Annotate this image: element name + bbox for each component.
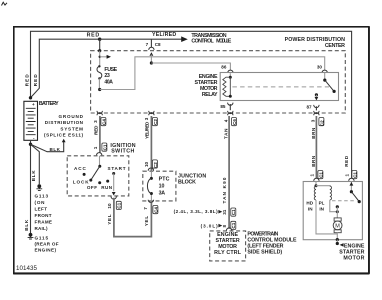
relay terminal 85 <box>220 103 233 111</box>
svg-text:C1: C1 <box>318 172 323 178</box>
svg-text:87: 87 <box>306 105 312 110</box>
wire RED battery positive inner <box>31 39 100 98</box>
svg-text:FUSE: FUSE <box>104 67 117 73</box>
svg-text:G115: G115 <box>35 235 49 240</box>
junction block box <box>143 168 207 202</box>
fused output arrow <box>100 55 111 59</box>
svg-text:LOCK: LOCK <box>73 179 90 184</box>
svg-text:FRAME: FRAME <box>35 220 53 225</box>
svg-text:YEL/RED: YEL/RED <box>145 121 150 139</box>
wire BLK to splice ES11 <box>31 139 66 152</box>
svg-text:C2: C2 <box>319 120 324 126</box>
svg-text:RED: RED <box>24 74 29 87</box>
svg-text:PTC: PTC <box>159 177 170 183</box>
wire TAN K90 relay 85 to PCM <box>222 116 237 229</box>
node RED bus junction <box>98 38 101 41</box>
fuse 23 40A <box>97 65 118 85</box>
battery <box>24 101 59 140</box>
relay terminal 87 <box>306 105 319 111</box>
svg-text:RED: RED <box>87 32 100 38</box>
svg-text:ACC: ACC <box>74 166 86 171</box>
PDC exit connector symbols <box>97 111 319 115</box>
relay mechanical link <box>232 86 329 88</box>
svg-text:HD: HD <box>306 201 313 206</box>
PCM engine starter motor relay control box <box>210 228 246 261</box>
engine variant callout 3.0L <box>201 221 237 229</box>
svg-text:RUN: RUN <box>101 185 113 190</box>
transmission control module label <box>191 33 231 45</box>
svg-text:LEFT: LEFT <box>35 207 48 212</box>
wire YEL ignition to junction block <box>107 198 159 237</box>
svg-text:C4: C4 <box>101 119 106 125</box>
svg-text:C2: C2 <box>153 162 158 168</box>
svg-text:RELAY: RELAY <box>202 92 218 98</box>
PTC 10 3A <box>147 171 169 201</box>
svg-text:7: 7 <box>143 207 148 210</box>
relay contact arm <box>323 73 336 93</box>
svg-text:3A: 3A <box>159 191 166 197</box>
ignition switch box <box>67 143 136 196</box>
svg-text:IN: IN <box>308 206 313 211</box>
svg-text:C1: C1 <box>231 222 236 228</box>
svg-text:10: 10 <box>107 203 112 209</box>
svg-text:(SPLICE ES11): (SPLICE ES11) <box>44 132 83 137</box>
svg-text:8: 8 <box>222 225 227 228</box>
svg-text:YEL/RED: YEL/RED <box>152 32 176 38</box>
relay terminal 30 <box>317 64 328 73</box>
svg-text:BLOCK: BLOCK <box>178 179 196 185</box>
svg-text:TAN: TAN <box>224 128 229 139</box>
svg-text:C2: C2 <box>153 119 158 125</box>
svg-text:BRN: BRN <box>311 155 316 167</box>
relay fixed contact 87 <box>315 93 319 100</box>
svg-text:(REAR OF: (REAR OF <box>35 242 59 247</box>
svg-text:MODULE: MODULE <box>216 39 232 45</box>
svg-text:86: 86 <box>221 64 227 69</box>
svg-text:CONTROL: CONTROL <box>191 39 214 45</box>
svg-text:40A: 40A <box>104 80 113 86</box>
svg-text:23: 23 <box>104 73 109 79</box>
svg-text:TAN K90: TAN K90 <box>222 177 227 203</box>
svg-text:C6: C6 <box>232 119 237 125</box>
svg-text:1: 1 <box>309 174 314 177</box>
relay coil <box>223 73 232 98</box>
svg-text:3: 3 <box>144 117 149 120</box>
svg-text:C1: C1 <box>231 209 236 215</box>
svg-text:MOTOR: MOTOR <box>343 256 364 262</box>
ground G113 <box>35 184 53 231</box>
svg-text:SIDE SHIELD): SIDE SHIELD) <box>247 250 282 256</box>
wire RED battery to starter labels <box>344 155 357 181</box>
svg-text:4: 4 <box>223 119 228 122</box>
starter solenoid contact <box>332 182 361 218</box>
svg-text:FRONT: FRONT <box>35 213 52 218</box>
svg-text:C8: C8 <box>155 42 161 47</box>
svg-text:BLK: BLK <box>31 170 36 182</box>
svg-text:C1: C1 <box>352 172 357 178</box>
svg-text:(ON: (ON <box>35 200 46 205</box>
svg-text:3: 3 <box>310 119 315 122</box>
powertrain control module label <box>247 232 297 256</box>
svg-text:BRN: BRN <box>311 127 316 139</box>
ignition switch contacts <box>73 156 126 190</box>
ignition switch START output <box>111 174 116 200</box>
svg-text:OFF: OFF <box>87 185 97 190</box>
junction battery positive <box>29 96 32 99</box>
connector C8 <box>146 39 161 50</box>
svg-text:ENGINE): ENGINE) <box>35 248 57 253</box>
svg-text:10: 10 <box>144 161 149 167</box>
svg-text:1: 1 <box>93 146 98 149</box>
svg-text:RED: RED <box>344 155 349 167</box>
svg-text:C1: C1 <box>102 144 107 150</box>
ground G115 <box>28 233 59 253</box>
svg-text:RAIL): RAIL) <box>35 226 48 231</box>
svg-text:30: 30 <box>317 64 323 69</box>
svg-text:RLY CTRL: RLY CTRL <box>214 250 242 256</box>
wire BLK to G113 <box>31 144 40 184</box>
wire fused feed into PDC <box>98 39 101 65</box>
wire YEL/RED trunk PDC to junction block <box>144 116 158 171</box>
svg-text:YEL: YEL <box>144 216 149 227</box>
svg-text:RED: RED <box>93 125 98 135</box>
wire PDC internal C8 to relay coil 86 <box>150 52 231 70</box>
svg-text:(2.4L, 3.3L, 3.8L): (2.4L, 3.3L, 3.8L) <box>174 209 218 214</box>
wire PDC internal fuse to relay contact 30 <box>98 57 325 91</box>
svg-text:BLK: BLK <box>24 219 29 231</box>
engine starter motor label <box>339 243 365 262</box>
power distribution center box <box>91 37 346 113</box>
svg-text:CENTER: CENTER <box>325 43 345 49</box>
svg-text:C4: C4 <box>153 207 158 213</box>
svg-text:SWITCH: SWITCH <box>111 148 134 154</box>
svg-text:IN: IN <box>319 206 324 211</box>
engine starter motor box <box>303 182 362 240</box>
svg-text:10: 10 <box>159 184 165 190</box>
svg-text:BATTERY: BATTERY <box>39 101 59 107</box>
svg-text:GROUND: GROUND <box>59 114 84 119</box>
svg-text:G113: G113 <box>35 194 49 199</box>
starter solenoid windings <box>306 182 338 234</box>
svg-text:31: 31 <box>222 209 227 215</box>
svg-text:3: 3 <box>93 120 98 123</box>
wire RED battery positive outer <box>24 31 351 178</box>
ground distribution system label <box>44 114 84 137</box>
svg-text:DISTRIBUTION: DISTRIBUTION <box>45 120 84 125</box>
relay terminal 86 <box>221 64 233 73</box>
svg-text:85: 85 <box>220 104 226 109</box>
engine starter motor relay box <box>195 73 339 101</box>
svg-text:RED: RED <box>33 74 38 87</box>
svg-text:PL: PL <box>319 201 325 206</box>
wire BRN relay 87 to starter <box>309 116 324 181</box>
transmission control module arrow <box>181 36 188 42</box>
svg-text:STARTER: STARTER <box>339 250 364 256</box>
svg-text:7: 7 <box>146 42 149 47</box>
svg-text:YEL: YEL <box>107 214 112 225</box>
wire YEL/RED to transmission control module <box>100 32 185 39</box>
engine variant callout 2.4L 3.3L 3.8L <box>174 208 237 216</box>
svg-text:ENGINE: ENGINE <box>344 243 365 249</box>
svg-text:M: M <box>335 224 340 230</box>
svg-text:(3.0L): (3.0L) <box>201 223 218 228</box>
svg-text:+: + <box>32 102 35 107</box>
svg-text:C1: C1 <box>117 202 122 208</box>
svg-text:SYSTEM: SYSTEM <box>60 126 83 131</box>
svg-text:1: 1 <box>344 174 349 177</box>
starter motor M <box>333 218 342 245</box>
wire BLK battery negative <box>24 141 32 234</box>
svg-text:START: START <box>108 166 126 171</box>
svg-text:101435: 101435 <box>16 265 38 272</box>
svg-text:BLK: BLK <box>50 147 61 152</box>
wire RED trunk PDC to ignition switch <box>93 116 108 153</box>
